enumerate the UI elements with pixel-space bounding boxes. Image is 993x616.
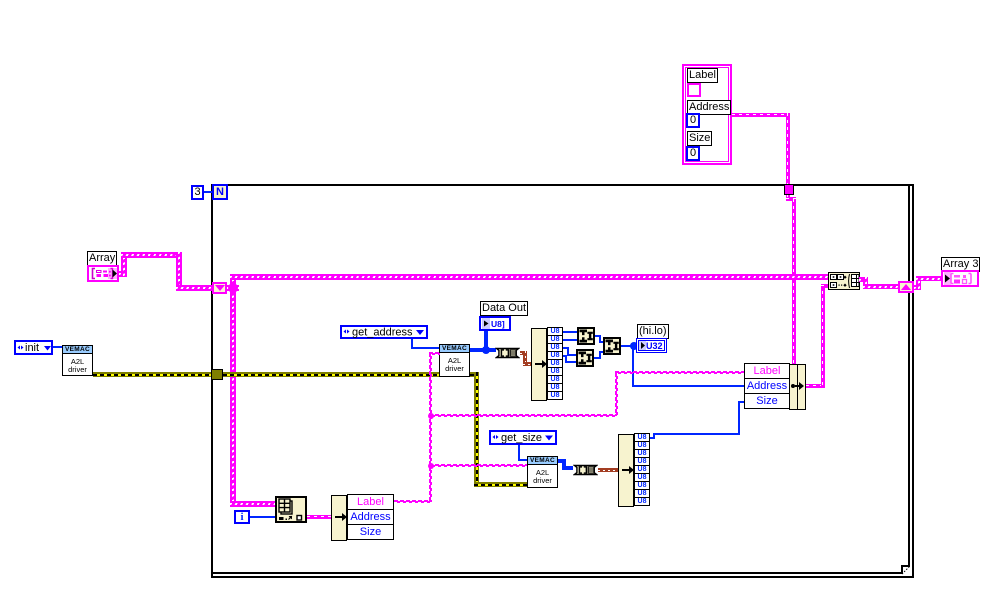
svg-text:U32: U32 bbox=[646, 341, 663, 351]
svg-text:get_size: get_size bbox=[501, 432, 542, 444]
svg-text:init: init bbox=[25, 342, 39, 354]
svg-text:get_address: get_address bbox=[352, 327, 413, 339]
svg-text:U8]: U8] bbox=[491, 319, 505, 329]
